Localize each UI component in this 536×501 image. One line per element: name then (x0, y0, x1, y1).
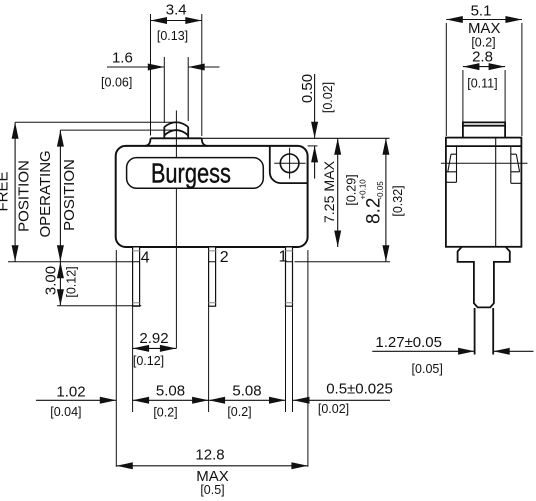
side view: right latch ear (511, 146, 522, 183)
svg-text:1: 1 (279, 249, 288, 266)
side view: plunger (463, 122, 505, 137)
seating plane ticks across pins (133, 261, 293, 263)
dimension 5.08 (pin4-pin2): line and arrows (133, 399, 209, 401)
front view: body outline (116, 146, 308, 247)
dimension 3.4: extension lines (151, 14, 202, 136)
svg-text:2.92: 2.92 (139, 330, 168, 347)
dimension 0.50: upper leader and down arrow (314, 74, 316, 138)
svg-text:-0.05: -0.05 (376, 181, 385, 200)
front view: boss left fillet (145, 138, 151, 146)
svg-text:FREE: FREE (0, 171, 12, 211)
terminal pin 2 (209, 247, 216, 306)
side view: terminal pin (475, 308, 494, 355)
svg-text:[0.5]: [0.5] (200, 483, 224, 497)
front view: mounting hole (280, 154, 299, 173)
svg-text:[0.05]: [0.05] (412, 362, 443, 376)
svg-text:0.50: 0.50 (299, 74, 316, 103)
svg-text:1.6: 1.6 (112, 50, 133, 67)
svg-text:[0.11]: [0.11] (467, 77, 497, 91)
pin bottom extension line (57, 305, 141, 307)
side view: 5.1 extension lines (446, 23, 522, 136)
svg-text:2.8: 2.8 (472, 49, 493, 66)
svg-text:+0.10: +0.10 (359, 179, 368, 200)
svg-text:[0.12]: [0.12] (133, 354, 164, 368)
body top extension line right (308, 145, 318, 147)
extension line pin1 left (285, 306, 287, 412)
svg-text:[0.02]: [0.02] (321, 82, 335, 113)
svg-text:5.08: 5.08 (232, 382, 261, 399)
front view: plunger dome sides (164, 127, 188, 138)
free position reference line (15, 121, 176, 123)
svg-text:[0.06]: [0.06] (101, 76, 132, 90)
svg-text:8.2: 8.2 (364, 198, 385, 224)
side view: collar and pin boss (458, 247, 510, 308)
side view: 5.1 dimension line (446, 19, 522, 21)
dimension 1.27±0.05: leaders and arrows (372, 350, 474, 352)
svg-text:POSITION: POSITION (61, 159, 78, 231)
extension line pin2 left (208, 306, 210, 412)
operating position reference line (60, 129, 176, 131)
svg-text:0.5±0.025: 0.5±0.025 (326, 381, 393, 398)
front view: mounting hole crosshair (274, 148, 305, 179)
svg-text:[0.29]: [0.29] (345, 174, 359, 205)
svg-text:5.1: 5.1 (471, 2, 492, 19)
svg-text:3.00: 3.00 (43, 266, 60, 295)
svg-text:MAX: MAX (468, 20, 501, 37)
svg-text:Burgess: Burgess (151, 158, 231, 189)
side view: cover joint line (446, 145, 522, 147)
side view: left latch ear (446, 146, 457, 182)
dimension 12.8: line and arrows (116, 465, 308, 467)
side view: 2.8 dimension line (463, 66, 505, 68)
svg-text:[0.12]: [0.12] (65, 266, 79, 297)
svg-text:[0.32]: [0.32] (391, 185, 405, 216)
svg-text:1.02: 1.02 (56, 384, 85, 401)
svg-text:7.25 MAX: 7.25 MAX (322, 160, 338, 223)
extension line body left (115, 250, 117, 467)
svg-text:1.27±0.05: 1.27±0.05 (375, 334, 442, 351)
svg-text:5.08: 5.08 (156, 382, 185, 399)
svg-text:4: 4 (141, 250, 150, 267)
seating plane reference line left segment (8, 261, 133, 263)
terminal pin 4 (133, 247, 140, 306)
svg-text:12.8: 12.8 (195, 447, 224, 464)
svg-text:POSITION: POSITION (15, 160, 32, 232)
svg-text:2: 2 (220, 249, 229, 266)
side view: parting line (495, 138, 497, 247)
dimension 1.02: leader and arrow (36, 399, 116, 401)
front view: plunger dome top arc (free position) (164, 122, 188, 127)
extension line pin1 right (292, 306, 294, 412)
extension line body right (307, 250, 309, 467)
boss top reference line extended right (202, 137, 390, 139)
svg-text:[0.04]: [0.04] (50, 405, 81, 419)
operating position dimension line (59, 130, 61, 262)
svg-text:OPERATING: OPERATING (37, 150, 54, 237)
extension line pin4 left (132, 306, 134, 412)
dimension 8.2: value with tolerances (rotated) (359, 179, 386, 224)
seating plane reference line right segment (295, 261, 391, 263)
dimension 5.08 (pin2-pin1): line and arrows (209, 399, 286, 401)
dimension 2.92: line and arrows (133, 347, 177, 349)
front view: mounting boss outline (270, 146, 308, 183)
dimension 1.6: extension lines (164, 57, 188, 123)
svg-text:[0.2]: [0.2] (471, 36, 495, 50)
svg-text:[0.2]: [0.2] (227, 405, 251, 419)
free position dimension line (14, 122, 16, 262)
dimension 0.50: lower leader and up arrow (314, 146, 316, 179)
svg-text:[0.13]: [0.13] (157, 29, 188, 43)
front view: plunger boss top (151, 137, 202, 139)
side view: body outline (446, 138, 522, 247)
side view: mounting hole centerline (441, 162, 528, 164)
terminal pin 1 (286, 247, 293, 306)
front view: Burgess label plate (127, 158, 264, 189)
dimension 3.00: line and arrows (59, 262, 61, 306)
svg-text:3.4: 3.4 (166, 2, 187, 19)
dimension 8.2: line and arrows (385, 138, 387, 261)
dimension 1.6: line and arrows (107, 66, 164, 68)
dimension 7.25 MAX: line and arrows (337, 138, 339, 247)
front view: boss right fillet (202, 138, 208, 146)
svg-text:[0.2]: [0.2] (153, 406, 177, 420)
centerline of plunger (175, 111, 177, 349)
dimension 3.4: line and arrows (151, 20, 202, 22)
side view: 2.8 extension lines (463, 70, 505, 122)
front view: plunger dome inner arc (operating position) (164, 130, 188, 135)
dimension 0.5±0.025: leader and arrow (293, 399, 390, 401)
svg-text:[0.02]: [0.02] (318, 402, 349, 416)
